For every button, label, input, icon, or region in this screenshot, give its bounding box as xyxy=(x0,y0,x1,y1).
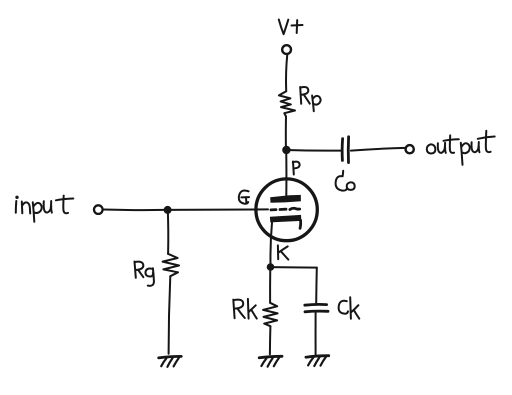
terminal input xyxy=(94,205,103,214)
label output xyxy=(427,131,495,165)
pin label P xyxy=(293,162,300,175)
ground (Ck) xyxy=(306,356,329,366)
label input xyxy=(16,196,74,222)
wire grid junction down to Rg xyxy=(167,210,169,254)
label Ck xyxy=(339,297,360,318)
tube cathode hook xyxy=(299,220,302,228)
wire tube cathode to K junction xyxy=(270,223,272,264)
junction cathode node xyxy=(267,263,275,271)
capacitor Co xyxy=(342,137,348,163)
tube grid dashes xyxy=(271,208,300,210)
tube plate bar xyxy=(270,195,301,203)
wire Ck to ground xyxy=(315,313,317,355)
wire Rk to ground xyxy=(269,326,272,354)
tube cathode bar xyxy=(270,215,301,223)
pin label G xyxy=(239,190,249,203)
wire V+ to Rp xyxy=(286,54,287,91)
resistor Rk xyxy=(263,303,278,326)
terminal V+ xyxy=(282,45,291,54)
wire Rp to plate node xyxy=(285,117,287,147)
ground (Rk) xyxy=(259,356,282,366)
resistor Rg xyxy=(163,254,179,276)
wire Rg to ground xyxy=(169,276,171,354)
label Rg xyxy=(135,262,154,286)
op-amp: triode tube U1 envelope xyxy=(256,179,317,241)
node V+ label xyxy=(279,20,303,35)
wire plate node to tube plate xyxy=(285,150,287,197)
wire K junction to Ck branch xyxy=(271,266,317,269)
ground (Rg) xyxy=(159,356,182,366)
wire K junction down to Rk xyxy=(269,267,271,303)
wire Ck branch down to Ck xyxy=(315,268,318,304)
capacitor Ck xyxy=(305,304,328,311)
pin label K xyxy=(278,245,288,259)
wire plate node to Co xyxy=(286,149,340,152)
label Rk xyxy=(233,299,256,319)
label Rp xyxy=(300,87,320,111)
junction grid node xyxy=(164,206,172,214)
wire input terminal to grid junction xyxy=(103,209,164,212)
wire Co to output terminal xyxy=(351,148,406,151)
junction plate node xyxy=(282,146,290,154)
label Co xyxy=(336,171,355,191)
resistor Rp xyxy=(279,91,295,116)
wire grid junction to tube grid xyxy=(168,208,268,211)
terminal output xyxy=(406,145,414,153)
